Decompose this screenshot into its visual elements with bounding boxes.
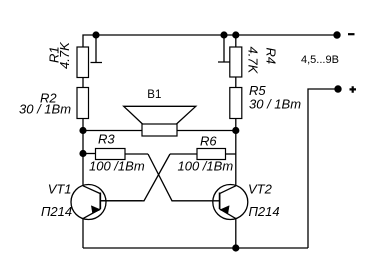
- R4 value label: [246, 47, 261, 75]
- node: R1 top / tap junction: [92, 31, 99, 38]
- svg-text:VT2: VT2: [248, 182, 273, 197]
- node: R3 / VT1 collector junction: [79, 150, 86, 157]
- wire: VT2 emitter to bottom rail: [235, 219, 237, 248]
- R5 reference label: [249, 83, 266, 98]
- wire: top supply rail (minus): [83, 35, 337, 47]
- R4 reference label: [264, 48, 279, 65]
- svg-text:R6: R6: [200, 134, 217, 149]
- wire: R1 to R2: [82, 78, 84, 88]
- resistor R5: [230, 88, 242, 119]
- wire: VT1 emitter to bottom rail: [82, 219, 84, 248]
- svg-text:4,5...9В: 4,5...9В: [301, 54, 339, 66]
- R2 value label: [19, 102, 71, 117]
- wire: node to speaker left terminal: [83, 130, 142, 132]
- R1 reference label: [47, 46, 62, 63]
- wire: speaker right terminal to node: [177, 130, 236, 132]
- resistor R4: [218, 35, 242, 77]
- wire: node to VT1 collector: [82, 154, 84, 186]
- svg-text:R3: R3: [98, 131, 115, 146]
- R6 value label: [178, 159, 234, 174]
- svg-text:4.7K: 4.7K: [57, 41, 72, 69]
- svg-text:VT1: VT1: [48, 182, 72, 197]
- R3 value label: [89, 158, 145, 173]
- node: R2 / speaker / R3 junction: [79, 127, 86, 134]
- svg-text:30 / 1Вт: 30 / 1Вт: [249, 96, 301, 111]
- R5 value label: [249, 96, 301, 111]
- node: R4 tap junction on rail: [220, 31, 227, 38]
- VT2 reference label: [248, 182, 273, 197]
- transistor VT2: [213, 185, 248, 220]
- resistor R1: [77, 35, 102, 78]
- R3 reference label: [98, 131, 115, 146]
- R2 reference label: [40, 91, 57, 106]
- R6 reference label: [200, 134, 217, 149]
- VT2 type label П214: [249, 204, 280, 219]
- node: emitter junction on bottom rail: [232, 244, 239, 251]
- wire: bottom rail: [83, 247, 308, 249]
- minus sign: [348, 33, 355, 35]
- svg-text:П214: П214: [249, 204, 280, 219]
- wire: R6 to VT1 base (cross coupling): [100, 154, 170, 201]
- svg-text:100 /1Вт: 100 /1Вт: [89, 158, 145, 173]
- wire: R5 bottom to node: [235, 119, 237, 131]
- resistor R2: [77, 88, 89, 119]
- transistor VT1: [71, 185, 142, 220]
- wire: node down to VT2 collector: [235, 131, 237, 186]
- svg-text:4.7K: 4.7K: [246, 47, 261, 75]
- wire: R4 to R5: [235, 77, 237, 88]
- supply voltage label 4,5...9В: [301, 54, 339, 66]
- resistor R3: [83, 149, 148, 160]
- B1 label: [147, 89, 161, 101]
- svg-text:30 / 1Вт: 30 / 1Вт: [19, 102, 71, 117]
- svg-text:П214: П214: [41, 204, 72, 219]
- VT1 reference label: [48, 182, 72, 197]
- wire: bottom rail up to plus terminal: [308, 89, 338, 248]
- VT1 type label П214: [41, 204, 72, 219]
- svg-text:100 /1Вт: 100 /1Вт: [178, 159, 234, 174]
- R1 value label: [57, 41, 72, 69]
- plus sign: [350, 86, 357, 93]
- speaker B1: [124, 106, 196, 136]
- svg-text:B1: B1: [147, 89, 161, 101]
- wire: R2 bottom to node: [82, 119, 84, 131]
- node: R5 / speaker / VT2 collector junction: [232, 127, 239, 134]
- node: R4 top junction on rail: [232, 31, 239, 38]
- svg-text:R4: R4: [264, 48, 279, 65]
- wire: left vertical to R3 node: [82, 131, 84, 154]
- terminal: plus: [334, 85, 341, 92]
- wire: R3 to VT2 base (cross coupling): [148, 154, 220, 201]
- terminal: minus: [333, 31, 340, 38]
- resistor R6: [170, 149, 236, 160]
